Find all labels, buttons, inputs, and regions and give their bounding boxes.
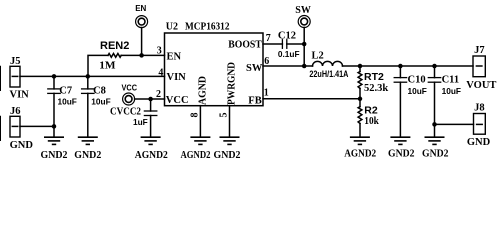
svg-text:J7: J7 xyxy=(474,45,485,56)
svg-text:RT2: RT2 xyxy=(364,71,384,83)
svg-text:AGND2: AGND2 xyxy=(344,148,376,159)
svg-text:VCC: VCC xyxy=(122,83,138,92)
svg-text:VOUT: VOUT xyxy=(466,80,496,91)
svg-text:FB: FB xyxy=(248,96,261,107)
svg-text:C12: C12 xyxy=(278,31,296,42)
svg-text:10uF: 10uF xyxy=(408,86,427,96)
svg-text:CVCC2: CVCC2 xyxy=(110,107,141,118)
svg-text:C7: C7 xyxy=(59,85,72,96)
svg-text:SW: SW xyxy=(295,5,311,16)
svg-text:1: 1 xyxy=(264,88,269,99)
svg-text:10uF: 10uF xyxy=(442,86,461,96)
svg-text:10uF: 10uF xyxy=(58,96,77,106)
svg-text:REN2: REN2 xyxy=(100,40,129,52)
svg-text:5: 5 xyxy=(218,113,229,118)
svg-text:VIN: VIN xyxy=(10,90,30,101)
svg-text:GND2: GND2 xyxy=(422,148,449,159)
svg-text:C10: C10 xyxy=(408,75,426,86)
svg-text:GND2: GND2 xyxy=(74,150,101,161)
svg-text:22uH/1.41A: 22uH/1.41A xyxy=(309,69,348,80)
svg-text:GND2: GND2 xyxy=(388,148,415,159)
svg-text:0.1uF: 0.1uF xyxy=(278,49,300,59)
svg-text:3: 3 xyxy=(157,46,162,57)
svg-text:EN: EN xyxy=(167,51,182,62)
svg-text:1uF: 1uF xyxy=(133,117,148,127)
svg-text:10uF: 10uF xyxy=(91,96,110,106)
svg-text:MCP16312: MCP16312 xyxy=(185,22,230,33)
svg-text:R2: R2 xyxy=(364,104,378,116)
svg-text:EN: EN xyxy=(135,4,146,13)
svg-text:C8: C8 xyxy=(93,85,106,96)
svg-text:AGND: AGND xyxy=(197,76,208,105)
svg-text:C11: C11 xyxy=(442,75,460,86)
svg-text:J5: J5 xyxy=(10,56,21,67)
svg-text:AGND2: AGND2 xyxy=(135,150,168,161)
svg-text:4: 4 xyxy=(158,67,163,78)
svg-text:AGND2: AGND2 xyxy=(181,150,211,161)
svg-text:J6: J6 xyxy=(10,106,21,117)
svg-text:2: 2 xyxy=(156,89,161,100)
svg-text:52.3k: 52.3k xyxy=(364,83,388,94)
svg-text:10k: 10k xyxy=(364,116,379,127)
svg-text:GND2: GND2 xyxy=(214,150,241,161)
svg-text:6: 6 xyxy=(264,56,269,67)
svg-text:GND: GND xyxy=(10,140,34,151)
svg-text:GND: GND xyxy=(467,137,491,148)
svg-text:J8: J8 xyxy=(474,102,485,113)
svg-text:8: 8 xyxy=(189,113,200,118)
svg-text:BOOST: BOOST xyxy=(228,40,261,51)
svg-text:1M: 1M xyxy=(99,60,115,71)
svg-text:PWRGND: PWRGND xyxy=(226,62,237,105)
svg-text:SW: SW xyxy=(246,63,263,74)
svg-text:VCC: VCC xyxy=(166,95,189,106)
svg-text:GND2: GND2 xyxy=(41,150,68,161)
svg-text:VIN: VIN xyxy=(167,72,187,83)
svg-text:7: 7 xyxy=(266,33,271,44)
svg-text:U2: U2 xyxy=(166,22,178,33)
svg-text:L2: L2 xyxy=(312,51,324,62)
